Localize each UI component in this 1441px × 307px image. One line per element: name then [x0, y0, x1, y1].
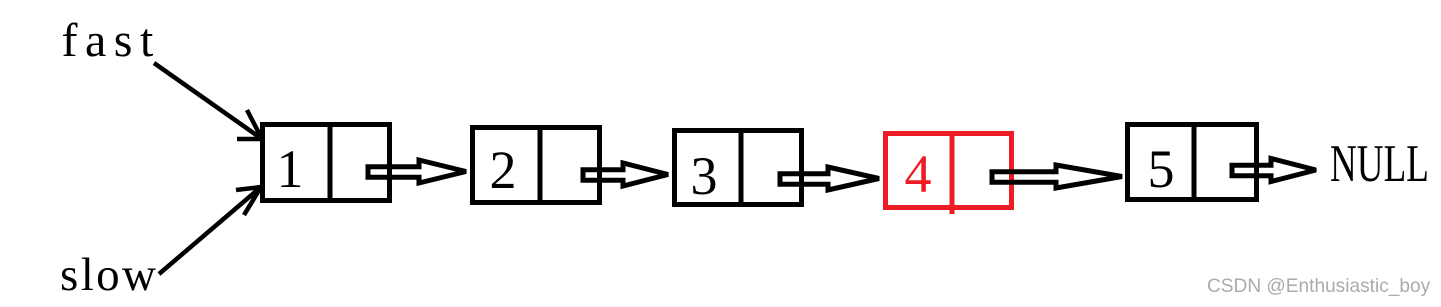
node 4 box (red highlighted node) — [886, 131, 1012, 214]
node 3 box — [675, 128, 802, 207]
svg-text:3: 3 — [691, 146, 718, 206]
svg-text:5: 5 — [1148, 139, 1175, 199]
svg-text:CSDN @Enthusiastic_boy: CSDN @Enthusiastic_boy — [1207, 276, 1431, 297]
pointer arrow node2 to node3 (hollow block arrow) — [583, 163, 668, 186]
svg-text:fast: fast — [62, 14, 161, 67]
pointer arrow node1 to node2 (hollow block arrow) — [368, 160, 466, 183]
svg-text:1: 1 — [277, 139, 304, 199]
svg-text:slow: slow — [60, 249, 158, 301]
pointer arrow node5 to NULL (hollow block arrow) — [1232, 159, 1316, 182]
svg-text:NULL: NULL — [1330, 133, 1429, 192]
svg-text:4: 4 — [905, 144, 932, 204]
pointer arrow node4 to node5 (hollow block arrow) — [992, 165, 1122, 188]
arrow fast (diagonal line into node 1 with open barbs) — [154, 63, 262, 139]
node 2 box — [473, 125, 600, 205]
svg-text:2: 2 — [490, 140, 517, 200]
arrow slow (diagonal line into node 1 with open barbs) — [159, 187, 261, 274]
pointer arrow node3 to node4 (hollow block arrow) — [780, 167, 879, 190]
node 5 box — [1128, 122, 1257, 202]
node 1 box — [263, 122, 390, 203]
